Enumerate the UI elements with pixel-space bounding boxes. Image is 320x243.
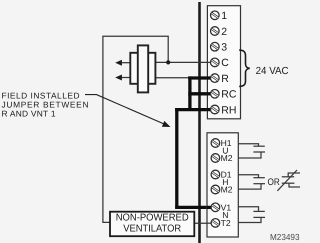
svg-text:RC: RC	[221, 89, 237, 101]
svg-text:2: 2	[221, 26, 227, 38]
svg-text:M2: M2	[221, 185, 233, 195]
svg-text:M2: M2	[221, 153, 233, 163]
svg-text:T2: T2	[221, 218, 231, 228]
svg-text:3: 3	[221, 42, 227, 54]
svg-text:R: R	[221, 73, 229, 85]
svg-text:R AND VNT 1: R AND VNT 1	[2, 109, 56, 119]
svg-text:M23493: M23493	[270, 232, 300, 242]
svg-text:OR: OR	[268, 177, 280, 188]
svg-text:NON-POWERED: NON-POWERED	[116, 212, 189, 223]
svg-text:1: 1	[221, 10, 227, 22]
svg-text:RH: RH	[221, 104, 236, 116]
svg-text:VENTILATOR: VENTILATOR	[123, 224, 181, 235]
svg-text:24 VAC: 24 VAC	[256, 66, 290, 77]
svg-text:C: C	[221, 57, 229, 69]
